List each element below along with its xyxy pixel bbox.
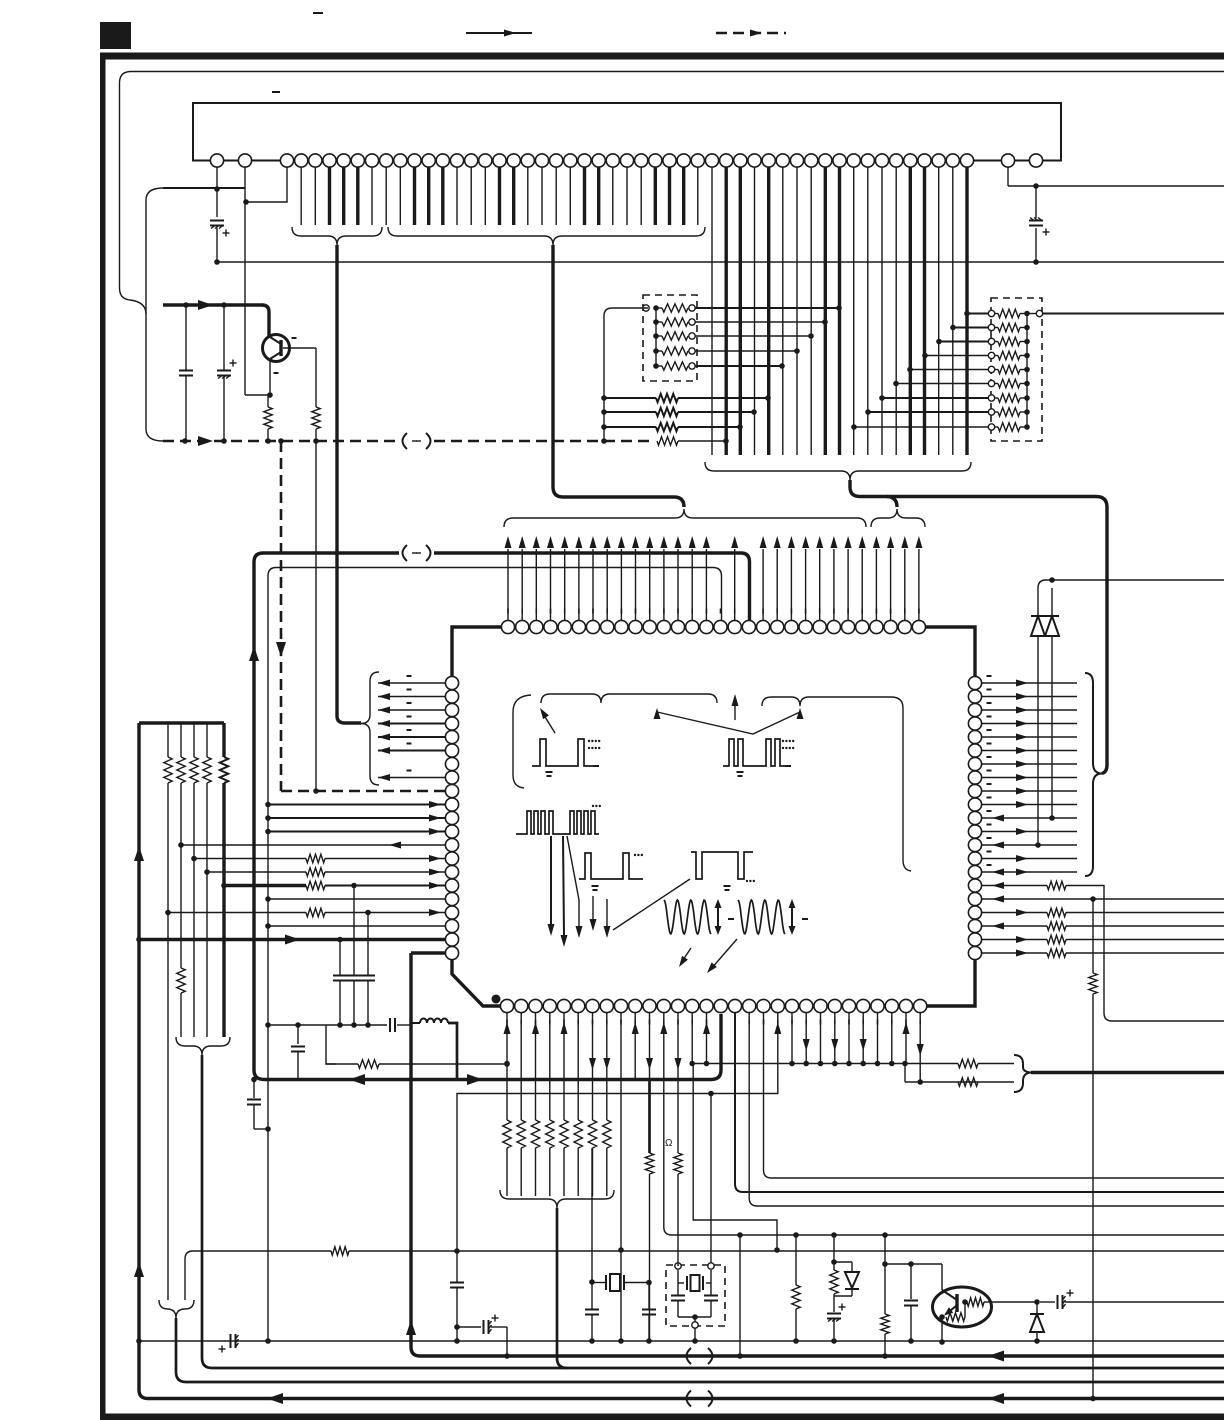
node x457 gnd — [454, 1338, 460, 1344]
gnd stem2 — [176, 1318, 1224, 1382]
node J8 — [182, 438, 188, 444]
node x885 top — [882, 1232, 888, 1238]
diode D1 — [1037, 588, 1039, 616]
arrow supply — [198, 300, 213, 310]
inductor L1 — [420, 1019, 448, 1024]
crystal drive wire j10 — [649, 1013, 651, 1078]
wire stub x740 — [737, 1232, 743, 1238]
wire Q2 out — [991, 1301, 1037, 1303]
resistor R17 — [331, 1247, 349, 1255]
gnd brace block2 — [159, 1300, 194, 1318]
waveform W3 — [516, 811, 599, 834]
pullup wire x168 — [167, 783, 169, 1300]
capacitor C7 — [367, 913, 369, 976]
resistor R26 — [958, 1078, 978, 1086]
wire j11 — [664, 1013, 1224, 1235]
pullup wire x224 — [222, 783, 225, 1037]
ic right row p19 resistor R23 — [982, 939, 1047, 941]
page frame left border — [100, 53, 106, 1420]
ic internal vee — [657, 712, 800, 734]
wire RA3 out — [1042, 313, 1224, 315]
wire R2 down — [315, 441, 317, 791]
wire j9 — [634, 1013, 636, 1078]
ic pin20 wire to bus — [411, 951, 445, 954]
diode D2 — [1051, 588, 1053, 616]
waveform W4 — [579, 853, 643, 879]
node J4 — [1033, 259, 1039, 265]
connector CN1 body — [193, 103, 1061, 161]
ic top brace B — [871, 509, 925, 527]
arrow bus right2 — [467, 1074, 483, 1085]
node R3 end — [723, 438, 729, 444]
crystal X1 feed — [591, 1148, 593, 1282]
wire vertical x604 — [604, 308, 648, 441]
bus corner up to pin — [711, 1014, 721, 1080]
wire from pin2 node — [245, 394, 270, 396]
legend solid-arrow wire symbol — [466, 32, 532, 34]
bus stem to left IC brace — [335, 245, 338, 716]
wire y1025 to bus — [397, 1024, 411, 1026]
resistor R27 — [793, 1232, 799, 1238]
wire C2 bottom — [1035, 228, 1037, 262]
callout arrow s2 — [711, 939, 737, 969]
bus left vertical x254 — [252, 562, 255, 1070]
ic row pin19 thick — [136, 937, 142, 943]
resistor array RA2 dashed box — [643, 295, 697, 381]
arrow j6 down — [589, 1058, 596, 1070]
osc return wire j19 — [457, 1013, 778, 1251]
ic U1 outline — [452, 627, 975, 1006]
ic row pin12 — [181, 844, 445, 846]
node J6 — [221, 302, 227, 308]
pullup wire x194 — [193, 783, 195, 1037]
ic left brace stem — [337, 716, 361, 723]
bus x411 corner — [411, 1347, 1224, 1356]
wire resline y1251 — [185, 1251, 331, 1300]
bus brace C long pins — [705, 462, 971, 480]
capacitor C1 polarized — [210, 220, 224, 222]
node dashed junction — [278, 438, 284, 444]
capacitor C2 polarized — [1029, 220, 1043, 222]
bus x139 corner — [139, 1390, 1224, 1399]
capacitor C3 — [179, 370, 193, 372]
node J5 — [183, 302, 189, 308]
node c5 — [337, 1022, 343, 1028]
connector label mark — [272, 91, 280, 93]
bus corner bottom — [254, 1070, 711, 1080]
W4 label — [592, 885, 599, 887]
capacitor C12 — [908, 1261, 914, 1267]
X2 wire up b — [710, 1094, 712, 1264]
bus out right y1072 — [1031, 1071, 1224, 1074]
wire pin2 drop — [244, 167, 246, 395]
node j19 crystal2 — [708, 1091, 714, 1097]
resistor R18 — [358, 1060, 379, 1068]
crystal X2 — [686, 1276, 688, 1290]
node R1 bottom — [265, 438, 271, 444]
sine1 dash — [728, 918, 734, 920]
ic row pin13 resistor R7 — [191, 856, 197, 862]
ic bottom bus wires right — [791, 1013, 793, 1064]
wire j29 — [919, 1013, 921, 1082]
ic left output arrows — [378, 682, 445, 684]
capacitor C8 — [389, 1018, 391, 1032]
node J2 — [214, 259, 220, 265]
arrow x139 up2 — [134, 1262, 144, 1277]
wire rail y184 — [1008, 185, 1224, 187]
resistor R16 — [177, 968, 185, 993]
node c7 — [365, 1022, 371, 1028]
node row2 start — [902, 1061, 908, 1067]
node J9 — [221, 438, 227, 444]
arrow dashed down — [276, 642, 286, 657]
node R2 to dashed pin — [313, 788, 319, 794]
waveform sine2 — [738, 900, 785, 934]
gnd stem1 — [202, 1055, 1224, 1368]
resistor R3 — [657, 437, 678, 445]
W1 dash — [593, 765, 599, 767]
dashed drop wire — [280, 441, 283, 791]
wire j13 — [691, 1013, 693, 1064]
bus x411 — [409, 953, 412, 1347]
ic top pin number ticks — [507, 609, 509, 614]
bus corner k1 — [254, 553, 399, 562]
page frame top border — [100, 53, 1224, 60]
connector long pin wires — [711, 167, 713, 455]
wire y580 — [1038, 580, 1224, 588]
timing arrow 1 — [550, 836, 552, 925]
timing line 3 — [567, 836, 579, 928]
node J3 — [1033, 183, 1039, 189]
bank brace — [500, 1190, 614, 1208]
ic right row p13 — [982, 858, 1077, 860]
callout arrow — [542, 712, 555, 733]
ic U1 pin1 dot — [492, 995, 501, 1004]
resistor group R4-R6 — [601, 395, 607, 401]
wire off-page top bus — [120, 72, 1224, 315]
crystal2 wire j12 — [677, 1013, 679, 1153]
legend dashed-arrow wire symbol — [716, 32, 786, 35]
arrow y1356 left — [988, 1351, 1004, 1362]
connector right pin wire — [1007, 167, 1009, 186]
ic left input rows from rail — [265, 802, 271, 808]
wire base right — [283, 347, 316, 349]
legend title mark — [313, 12, 323, 14]
wire C2 top — [1035, 186, 1037, 218]
ic right output rows — [982, 682, 1077, 684]
ic left brace — [361, 672, 379, 785]
pullup resistors R11-R15 — [167, 723, 169, 757]
callout arrow s1 — [681, 948, 691, 963]
X2 cap Ca — [677, 1283, 679, 1295]
wire base row — [885, 1263, 942, 1265]
wire row2 — [905, 1081, 1014, 1083]
node d2 top — [1049, 577, 1055, 583]
capacitor C5 — [339, 940, 341, 976]
dashed to IC pin8 — [281, 790, 445, 793]
node diode D4 — [1034, 1299, 1040, 1305]
wire collector drop — [262, 305, 269, 336]
capacitor C16 — [295, 1022, 301, 1028]
connector short pin wires — [246, 167, 287, 202]
W4 dots — [634, 854, 643, 856]
ic right row p15 resistor R19 — [982, 885, 1047, 887]
wire x885 — [884, 1235, 886, 1314]
W2 label — [737, 771, 744, 773]
bus x139 — [137, 723, 140, 1390]
arrow bottom bus left — [267, 1393, 283, 1404]
q1 label mark2 — [274, 372, 279, 374]
node rail x268 j1 — [265, 1022, 271, 1028]
wire j14 — [706, 1013, 708, 1064]
node R2 bottom — [313, 438, 319, 444]
merge brace right — [1014, 1055, 1031, 1092]
X2 test points — [675, 1263, 681, 1269]
gnd wire y1341 — [139, 1340, 1224, 1342]
RA3 output circle — [1036, 310, 1042, 316]
wire corner y567 — [268, 568, 713, 577]
dashed wire cont — [434, 440, 655, 443]
ic right row p14 dual — [982, 871, 1077, 873]
capacitor C13 polarized — [1057, 1295, 1059, 1309]
wire y1064 corner — [326, 1025, 336, 1064]
bus stem C — [850, 480, 860, 497]
staircase wire j13b — [693, 1064, 777, 1251]
resistor array RA3 rows — [1026, 314, 1028, 428]
bus wire y553 — [434, 551, 741, 554]
bus stem to IC top brace B — [887, 497, 897, 508]
timing arrow 5 — [606, 899, 608, 928]
pullup wire x207 — [206, 783, 208, 1037]
capacitor C11 polarized series — [230, 1334, 232, 1348]
W5 dots — [746, 880, 755, 882]
wire rail y1129 cap — [253, 1080, 255, 1099]
sine1 range arrow — [717, 902, 719, 932]
node J1 — [214, 186, 220, 192]
timing diag from W5 — [613, 879, 690, 930]
resistor R25 — [958, 1059, 978, 1067]
node y1251 — [454, 1248, 460, 1254]
transistor Q2 digital — [933, 1287, 992, 1327]
arrow bus up — [249, 646, 259, 661]
W2 dash — [785, 765, 791, 767]
arrow bottom bus left2 — [988, 1393, 1004, 1404]
resistor R28 zener D3 pair — [831, 1232, 837, 1238]
pullup wire x181 — [180, 783, 182, 968]
capacitor C10 — [648, 1283, 650, 1310]
dashed break — [403, 433, 408, 449]
ic row pin15 resistor R9 — [221, 883, 227, 889]
arrow x411 up — [406, 1320, 416, 1335]
wire pin1 to node — [216, 167, 218, 217]
ic internal arrow mid — [734, 700, 736, 720]
wire j8 — [620, 1013, 622, 1250]
bus break y553 — [403, 545, 408, 561]
sine2 dash — [802, 918, 808, 920]
waveform W1 — [532, 739, 599, 766]
bus brace B — [388, 227, 705, 245]
resistor R2 — [312, 407, 320, 429]
node c6 — [351, 1022, 357, 1028]
arrow j7 down — [603, 1058, 610, 1070]
bus split bracket — [146, 188, 163, 441]
ic row pin18 — [265, 923, 271, 929]
ic row pin17 resistor R10 — [165, 910, 171, 916]
W1 dots — [588, 740, 601, 749]
capacitor C6 — [353, 886, 355, 976]
capacitor C9 — [591, 1283, 593, 1310]
capacitor C14 — [456, 1251, 458, 1282]
resistor array RA3 dashed box — [991, 298, 1042, 441]
resistor array RA2 rows — [643, 305, 649, 311]
ic U1 top pins — [501, 620, 514, 633]
bus brace A — [292, 227, 382, 245]
wire y1063 — [692, 1063, 958, 1065]
ic U1 left pins — [445, 676, 458, 689]
node y1341 x268 — [265, 1338, 271, 1344]
bus corner to pin17 — [741, 553, 750, 620]
node x457 y1327 — [454, 1324, 460, 1330]
bus stem drop — [551, 245, 554, 487]
waveform sine1 — [664, 900, 711, 934]
diode D4 — [1036, 1302, 1038, 1314]
arrow x139 up — [134, 846, 144, 861]
arrow bus left — [349, 1074, 365, 1085]
resistor R1 — [264, 407, 272, 429]
wire supply rail y262 — [217, 261, 1224, 263]
callout elbow — [513, 695, 531, 788]
timing arrow 4 — [592, 896, 594, 922]
svg-text:Ω: Ω — [665, 1138, 673, 1149]
wire bus line upper-left — [163, 187, 245, 189]
ic row pin14 resistor R8 — [204, 869, 210, 875]
wire y1025 — [268, 1024, 387, 1026]
ic right bus bracket — [1085, 673, 1102, 876]
arrow dashed — [198, 436, 213, 446]
crystal X2 dashed box — [666, 1265, 725, 1326]
ic right row p17 resistor R21 — [982, 912, 1047, 914]
ic right row p20 resistor R24 — [982, 952, 1047, 954]
resistor R20 — [1092, 899, 1094, 973]
bank stem — [557, 1208, 567, 1368]
pullup rail — [139, 721, 224, 724]
page frame bottom border — [100, 1414, 1224, 1420]
W5 label — [724, 885, 731, 887]
X2 ground rail — [678, 1316, 711, 1318]
waveform W5 — [691, 852, 753, 879]
page corner marker square — [100, 22, 131, 49]
bus trunk right — [860, 497, 1107, 774]
W1 label — [546, 771, 553, 773]
bus elbow to IC top brace A — [553, 487, 684, 507]
node J7 — [267, 392, 273, 398]
W3 dots — [592, 805, 601, 807]
capacitor C15 polarized — [457, 1326, 481, 1328]
capacitor C4 polarized — [217, 370, 231, 372]
wire L1 corner — [448, 1023, 457, 1080]
crystal X1 — [605, 1275, 607, 1290]
bus y1356 break — [687, 1348, 692, 1364]
ic top outgoing arrows — [507, 549, 509, 620]
staircase wire j16 — [735, 1013, 1224, 1192]
ic internal brace b — [762, 697, 911, 871]
ic right row p10 — [982, 817, 1077, 819]
staircase wire j18 — [764, 1013, 1224, 1178]
ic U1 bottom pins — [500, 999, 513, 1012]
wire emitter — [269, 359, 271, 395]
wire rail x268 — [267, 576, 269, 1341]
dashed wire main — [163, 440, 399, 443]
wire C1 bottom — [216, 228, 218, 262]
W2 dots — [782, 740, 795, 749]
X2 cap Cb — [710, 1283, 712, 1295]
transistor Q1 — [263, 335, 290, 362]
ic right row p11 — [982, 831, 1077, 833]
ic bottom pin ticks — [506, 1020, 508, 1025]
ic row pin16 — [265, 896, 271, 902]
wire supply line y305 — [163, 303, 263, 306]
termination resistors bank — [506, 1013, 508, 1120]
connector CN1 pins — [210, 154, 223, 167]
sine2 range arrow — [791, 902, 793, 932]
ic right row p16 edge — [982, 898, 1224, 900]
wire j28 — [905, 1013, 907, 1064]
wire to pin15 — [713, 568, 722, 621]
waveform W2 — [723, 739, 791, 766]
resistor R29 — [881, 1314, 889, 1334]
X2 wire up a — [677, 1263, 679, 1266]
staircase wire j17 — [749, 1013, 1224, 1206]
ic right row p12 — [982, 844, 1077, 846]
ic U1 right pins — [968, 676, 981, 689]
ic right row p18 resistor R22 — [982, 925, 1047, 927]
node bank j0 — [504, 1061, 510, 1067]
timing arrow 2 — [563, 836, 564, 936]
ic internal brace a — [541, 694, 717, 703]
q1 label mark — [292, 337, 297, 339]
ic top brace A — [504, 509, 866, 527]
bus bottom break — [687, 1391, 692, 1407]
gnd brace block1 — [176, 1037, 230, 1055]
node y1341 x139 — [136, 1338, 142, 1344]
